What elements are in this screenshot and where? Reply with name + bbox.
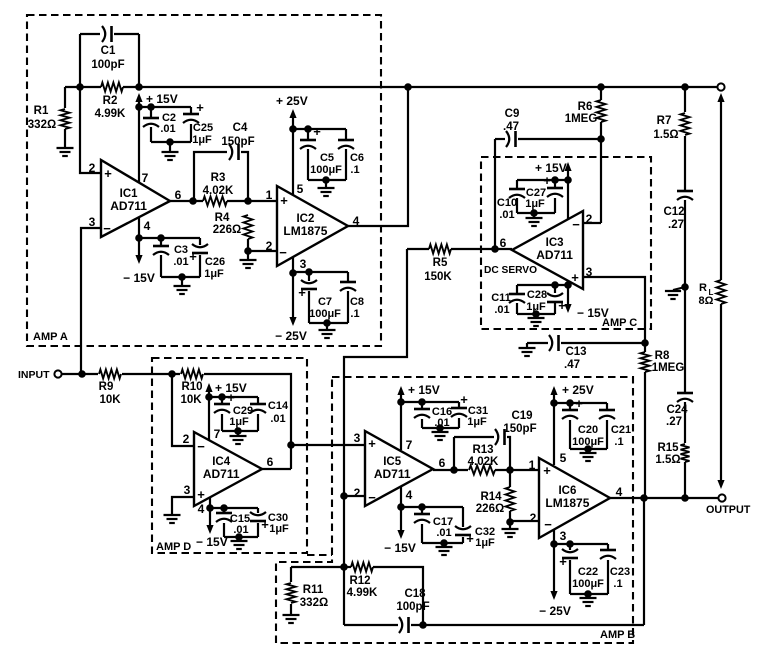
svg-text:4.99K: 4.99K	[347, 587, 378, 599]
junction	[220, 504, 228, 512]
junction	[135, 83, 143, 91]
svg-text:−: −	[279, 245, 287, 260]
wire	[610, 497, 718, 499]
svg-text:− 25V: − 25V	[275, 329, 307, 343]
op-amp IC1 AD711	[101, 160, 170, 237]
wire	[570, 448, 607, 450]
wire	[644, 372, 646, 497]
resistor R10	[181, 370, 203, 379]
junction	[506, 518, 514, 526]
svg-text:C3: C3	[174, 244, 188, 256]
svg-text:C24: C24	[666, 404, 688, 416]
wire	[348, 87, 408, 226]
svg-text:1MEG: 1MEG	[565, 113, 598, 125]
ground	[436, 547, 453, 555]
wire	[262, 468, 291, 470]
junction	[135, 234, 143, 242]
capacitor C24	[677, 393, 693, 402]
C14 value label	[268, 400, 289, 425]
junction	[289, 125, 297, 133]
R11 value label	[300, 584, 328, 609]
junction	[450, 466, 458, 474]
svg-text:R6: R6	[578, 101, 593, 113]
wire	[587, 594, 589, 598]
wire	[495, 469, 539, 471]
svg-text:− 15V: − 15V	[577, 306, 609, 320]
capacitor C11	[509, 294, 525, 303]
ground	[580, 598, 597, 606]
+15V supply arrow	[397, 386, 404, 395]
svg-text:226Ω: 226Ω	[476, 503, 504, 515]
wire	[569, 544, 571, 550]
junction	[147, 103, 155, 111]
capacitor C13	[549, 335, 559, 351]
wire	[439, 428, 441, 432]
R13 value label	[468, 444, 499, 468]
ground	[164, 515, 181, 523]
svg-text:+: +	[298, 285, 306, 300]
wire	[238, 537, 240, 541]
wire	[516, 285, 518, 293]
+15V supply arrow	[205, 383, 212, 392]
wire	[190, 124, 192, 142]
junction	[78, 370, 86, 378]
junction	[532, 310, 540, 318]
wire	[81, 228, 101, 374]
wire	[64, 129, 66, 148]
wire	[307, 149, 309, 180]
svg-text:3: 3	[89, 215, 96, 229]
svg-text:150pF: 150pF	[503, 423, 536, 435]
wire	[684, 136, 686, 190]
wire	[64, 87, 66, 108]
wire	[720, 304, 722, 480]
AMP A boundary box	[27, 15, 381, 346]
svg-text:.01: .01	[434, 417, 449, 429]
R10 value label	[180, 381, 202, 406]
junction	[189, 197, 197, 205]
capacitor C15	[216, 513, 232, 522]
junction	[681, 283, 689, 291]
svg-text:AD711: AD711	[110, 199, 147, 213]
wire	[199, 238, 201, 245]
C7 value label	[309, 296, 341, 320]
svg-text:−: −	[572, 217, 580, 232]
C13 value label	[564, 346, 587, 371]
ground	[319, 330, 336, 338]
svg-text:+: +	[368, 436, 376, 451]
wire	[462, 507, 464, 527]
svg-text:R3: R3	[211, 172, 226, 184]
svg-text:DC SERVO: DC SERVO	[484, 265, 537, 276]
svg-text:1μF: 1μF	[192, 134, 212, 146]
wire	[517, 313, 555, 315]
ground	[580, 453, 597, 461]
wire	[325, 180, 327, 188]
wire	[169, 142, 171, 152]
svg-text:100μF: 100μF	[572, 578, 604, 590]
wire	[290, 604, 292, 615]
svg-text:INPUT: INPUT	[18, 369, 50, 381]
svg-text:− 15V: − 15V	[196, 535, 228, 549]
svg-text:.1: .1	[350, 308, 359, 320]
svg-text:R2: R2	[103, 95, 118, 107]
wire	[114, 33, 139, 35]
C17 value label	[433, 516, 453, 539]
-25V supply arrow	[289, 317, 296, 326]
wire	[518, 138, 601, 140]
svg-text:R13: R13	[472, 444, 493, 456]
wire	[517, 284, 568, 286]
junction	[166, 138, 174, 146]
ground	[174, 286, 191, 294]
wire	[139, 237, 200, 239]
ground	[432, 432, 449, 440]
svg-text:.47: .47	[564, 359, 580, 371]
svg-text:+: +	[197, 487, 205, 502]
+15V supply arrow	[564, 162, 571, 171]
wire	[684, 87, 686, 112]
capacitor C28	[547, 293, 566, 313]
svg-text:C8: C8	[350, 296, 364, 308]
wire	[600, 87, 602, 100]
svg-text:2: 2	[266, 239, 273, 253]
ground	[231, 541, 248, 549]
svg-text:−: −	[103, 221, 111, 236]
junction	[564, 176, 572, 184]
svg-text:332Ω: 332Ω	[300, 597, 328, 609]
RL value label	[699, 282, 714, 307]
wire	[345, 129, 347, 139]
capacitor C5	[300, 124, 321, 149]
wire	[309, 322, 348, 324]
capacitor C27	[543, 173, 563, 197]
C30 value label	[268, 512, 289, 535]
wire	[684, 200, 686, 287]
terminal	[717, 83, 724, 90]
capacitor C10	[509, 189, 525, 198]
wire	[495, 138, 505, 140]
C10 value label	[497, 197, 517, 221]
wire	[307, 129, 309, 139]
wire	[422, 542, 463, 544]
svg-text:AD711: AD711	[536, 248, 573, 262]
wire	[720, 98, 722, 280]
capacitor C12	[677, 191, 693, 200]
resistor R1	[61, 109, 70, 129]
svg-text:−: −	[368, 490, 376, 505]
wire	[241, 152, 248, 201]
svg-text:C10: C10	[497, 197, 517, 209]
IC5 pin labels	[354, 431, 446, 505]
svg-text:R: R	[699, 282, 707, 294]
R2 value label	[95, 95, 126, 120]
svg-text:6: 6	[500, 236, 507, 250]
svg-text:1μF: 1μF	[525, 198, 545, 210]
C1 value label	[91, 45, 124, 71]
svg-text:150pF: 150pF	[221, 136, 254, 148]
wire	[569, 403, 571, 410]
svg-text:C19: C19	[511, 410, 532, 422]
svg-text:2: 2	[354, 486, 361, 500]
wire	[607, 544, 609, 550]
+25V supply arrow	[550, 386, 557, 395]
junction	[76, 83, 84, 91]
junction	[564, 281, 572, 289]
junction	[597, 135, 605, 143]
junction	[305, 268, 313, 276]
resistor R14	[506, 487, 515, 511]
svg-text:LM1875: LM1875	[283, 224, 327, 238]
junction	[218, 393, 226, 401]
ground	[162, 152, 179, 160]
resistor R11	[287, 583, 296, 603]
wire	[160, 255, 162, 277]
-15V supply arrow	[135, 255, 142, 264]
wire	[607, 560, 609, 594]
svg-text:150K: 150K	[424, 271, 452, 283]
resistor RL	[717, 280, 726, 304]
C26 value label	[204, 256, 225, 280]
svg-text:100μF: 100μF	[310, 164, 342, 176]
wire	[494, 139, 496, 249]
R7 value label	[653, 115, 678, 141]
wire	[80, 87, 101, 173]
svg-text:1.5Ω: 1.5Ω	[655, 454, 680, 466]
junction	[340, 563, 348, 571]
junction	[168, 370, 176, 378]
junction	[244, 197, 252, 205]
junction	[287, 441, 295, 449]
wire	[583, 277, 645, 343]
svg-text:.27: .27	[668, 219, 684, 231]
wire	[517, 179, 568, 181]
svg-text:100pF: 100pF	[396, 601, 429, 613]
C15 value label	[230, 513, 250, 536]
wire	[172, 374, 194, 446]
svg-text:R8: R8	[655, 350, 670, 362]
junction	[551, 281, 559, 289]
wire	[454, 436, 494, 438]
wire	[344, 249, 407, 625]
C31 value label	[467, 405, 488, 428]
resistor R13	[469, 466, 495, 475]
wire	[373, 567, 423, 625]
C12 value label	[663, 206, 684, 231]
wire	[643, 498, 645, 625]
capacitor C16	[414, 409, 430, 418]
capacitor C29	[214, 390, 235, 413]
op-amp IC3 AD711	[512, 211, 583, 289]
wire	[344, 495, 365, 497]
wire	[291, 566, 344, 568]
box link dashes	[307, 554, 332, 556]
resistor R7	[681, 113, 690, 135]
junction	[244, 247, 252, 255]
junction	[205, 393, 213, 401]
svg-text:.01: .01	[270, 413, 285, 425]
wire	[347, 272, 349, 281]
junction	[135, 103, 143, 111]
wire	[150, 107, 152, 117]
resistor R9	[99, 370, 121, 379]
junction	[491, 245, 499, 253]
wire	[227, 200, 277, 202]
wire	[221, 397, 223, 404]
INPUT terminal	[54, 370, 61, 377]
svg-text:1μF: 1μF	[467, 416, 487, 428]
wire	[223, 508, 225, 513]
svg-text:R10: R10	[181, 381, 202, 393]
junction	[322, 176, 330, 184]
wire	[222, 430, 258, 432]
wire	[139, 106, 191, 108]
ground	[318, 188, 335, 196]
svg-text:+: +	[227, 390, 235, 405]
svg-text:4: 4	[144, 219, 151, 233]
svg-text:100μF: 100μF	[572, 436, 604, 448]
junction	[178, 273, 186, 281]
junction	[404, 83, 412, 91]
wire	[161, 276, 200, 278]
svg-text:1: 1	[529, 458, 536, 472]
svg-text:4: 4	[406, 488, 413, 502]
wire	[347, 291, 349, 323]
junction	[566, 540, 574, 548]
wire	[583, 222, 601, 224]
svg-text:R1: R1	[34, 105, 49, 117]
C16 value label	[432, 406, 452, 429]
svg-text:C22: C22	[578, 566, 598, 578]
svg-text:1: 1	[266, 188, 273, 202]
svg-text:.01: .01	[173, 256, 188, 268]
junction	[681, 494, 689, 502]
svg-text:.01: .01	[160, 123, 175, 135]
wire	[554, 180, 556, 188]
capacitor C3	[153, 246, 169, 255]
wire	[569, 420, 571, 449]
svg-text:5: 5	[560, 451, 567, 465]
C18 value label	[396, 588, 429, 613]
wire	[290, 567, 292, 582]
ground	[502, 529, 519, 537]
svg-text:7: 7	[406, 438, 413, 452]
C5 value label	[310, 152, 342, 176]
wire	[210, 507, 258, 509]
wire	[407, 248, 429, 250]
wire	[554, 543, 608, 545]
svg-text:.01: .01	[494, 304, 509, 316]
svg-text:+: +	[280, 193, 288, 208]
svg-text:C7: C7	[318, 296, 332, 308]
svg-text:3: 3	[560, 529, 567, 543]
op-amp IC2 LM1875	[277, 186, 348, 266]
wire	[247, 239, 249, 251]
junction	[206, 504, 214, 512]
C11 value label	[491, 292, 511, 316]
wire	[510, 520, 539, 522]
wire	[401, 401, 459, 403]
svg-text:+: +	[196, 100, 204, 115]
junction	[235, 533, 243, 541]
svg-text:R9: R9	[99, 381, 114, 393]
junction	[681, 83, 689, 91]
C19 value label	[503, 410, 536, 435]
wire	[150, 127, 152, 142]
wire	[451, 248, 512, 250]
capacitor C20	[562, 396, 583, 419]
R12 value label	[347, 575, 378, 599]
wire	[458, 418, 460, 428]
wire	[433, 469, 468, 471]
junction	[566, 399, 574, 407]
wire	[684, 462, 686, 498]
R15 value label	[655, 442, 680, 466]
svg-text:+: +	[571, 270, 579, 285]
svg-text:LM1875: LM1875	[545, 496, 589, 510]
svg-text:.1: .1	[614, 436, 623, 448]
svg-text:+ 15V: + 15V	[408, 383, 440, 397]
junction	[418, 398, 426, 406]
svg-text:AD711: AD711	[203, 467, 240, 481]
wire	[684, 402, 686, 443]
svg-text:6: 6	[439, 456, 446, 470]
capacitor C25	[183, 100, 204, 123]
svg-text:C21: C21	[611, 424, 631, 436]
junction	[530, 209, 538, 217]
C3 value label	[173, 244, 188, 268]
svg-text:+ 15V: + 15V	[535, 161, 567, 175]
wire	[509, 470, 511, 487]
C9 value label	[503, 108, 519, 133]
svg-text:10K: 10K	[99, 394, 121, 406]
wire	[644, 343, 646, 352]
resistor R5	[429, 245, 451, 254]
R5 value label	[424, 257, 452, 283]
wire	[443, 543, 445, 547]
IC2 pin labels	[266, 182, 360, 271]
svg-text:C25: C25	[193, 122, 213, 134]
-15V supply arrow	[209, 497, 211, 526]
junction	[419, 621, 427, 629]
svg-text:6: 6	[267, 455, 274, 469]
capacitor C18	[399, 617, 409, 633]
svg-text:C18: C18	[404, 588, 426, 600]
svg-text:C11: C11	[491, 292, 511, 304]
svg-text:+: +	[313, 124, 321, 139]
svg-text:R11: R11	[303, 584, 324, 596]
junction	[584, 445, 592, 453]
svg-text:AMP D: AMP D	[156, 541, 191, 553]
load arrow up	[717, 93, 724, 102]
+15V supply arrow	[135, 93, 142, 102]
resistor R6	[597, 100, 606, 122]
wire	[345, 149, 347, 180]
junction	[597, 83, 605, 91]
ground	[665, 291, 681, 299]
R9 value label	[99, 381, 122, 406]
svg-text:5: 5	[297, 182, 304, 196]
svg-text:+: +	[543, 173, 551, 188]
C4 value label	[221, 122, 254, 148]
wire	[138, 217, 140, 255]
svg-text:8Ω: 8Ω	[699, 295, 714, 307]
wire	[308, 291, 310, 323]
R8 value label	[652, 350, 685, 374]
svg-text:1MEG: 1MEG	[652, 362, 685, 374]
resistor R2	[101, 83, 123, 92]
wire	[247, 251, 249, 260]
